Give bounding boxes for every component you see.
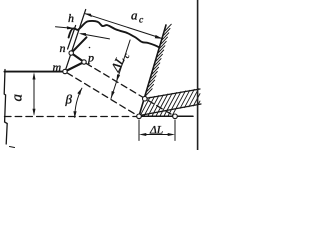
wire bottom-left tick [10, 147, 15, 148]
wire chip left edge line m-n extended up (a_c extension) [65, 10, 86, 72]
node m circle [63, 69, 67, 73]
node m shear plane (dashed m-T2) [67, 73, 137, 116]
wire workpiece top surface [5, 71, 65, 73]
wire tool upper boundary [145, 89, 200, 99]
angle beta arc [75, 88, 82, 117]
dimension dL line with arrows [142, 134, 172, 136]
wire tool rake face [139, 25, 166, 116]
node Q on rake face [143, 96, 148, 101]
node tool tip T2 [137, 114, 142, 119]
hatching along rake face [146, 24, 172, 95]
svg-text:β: β [65, 92, 73, 107]
wire tool flank edge [140, 104, 202, 116]
node n circle [69, 51, 73, 55]
hatching of tool wedge [140, 89, 200, 116]
page column rule at right [197, 0, 199, 150]
svg-text:n: n [60, 41, 66, 55]
wire thick segment m-p [65, 62, 84, 72]
wire thick segment n up-right [71, 37, 86, 53]
node former tool tip T1 [173, 114, 178, 119]
wire workpiece left edge [4, 70, 7, 145]
svg-text:a: a [10, 94, 26, 102]
dimension a_c line [86, 14, 163, 39]
dimension dL_c line along chip direction [111, 40, 130, 99]
svg-text:p: p [87, 51, 94, 65]
wire machined surface solid (right of tool tip) [139, 115, 193, 117]
dimension h arrows [56, 27, 73, 29]
node p circle [82, 60, 86, 64]
wire outer left edge of first element [68, 26, 76, 50]
wire horizontal dashed machined-surface line [5, 116, 138, 118]
node small dot above p [89, 47, 91, 49]
dimension a [33, 75, 35, 115]
dimension dL extension lines [139, 120, 175, 141]
wire dashed shear plane p-T1 [86, 63, 173, 115]
svg-text:m: m [53, 60, 62, 74]
wire wavy chip free end surface [69, 21, 160, 48]
svg-text:h: h [68, 11, 74, 25]
wire thick segment n-p [71, 53, 84, 62]
svg-text:ΔL: ΔL [149, 125, 163, 137]
svg-text:a: a [131, 8, 138, 23]
